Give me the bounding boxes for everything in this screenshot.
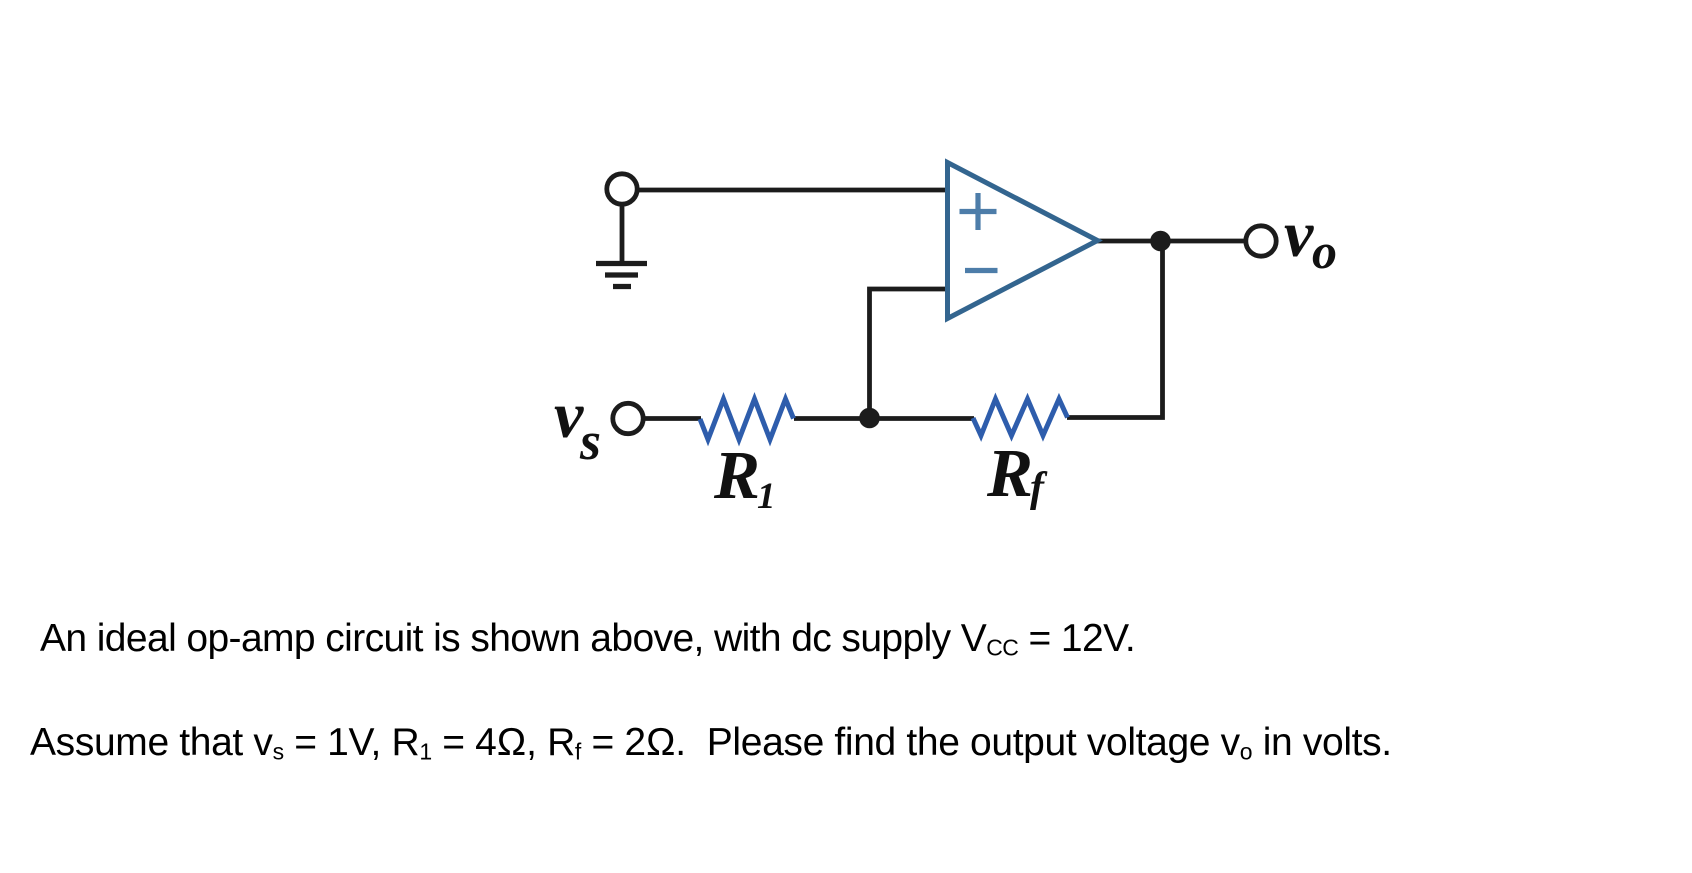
svg-text:v: v bbox=[1284, 198, 1314, 271]
svg-text:s: s bbox=[579, 411, 601, 471]
svg-text:o: o bbox=[1312, 223, 1337, 279]
svg-text:R: R bbox=[713, 437, 760, 513]
svg-text:f: f bbox=[1030, 465, 1048, 511]
svg-text:1: 1 bbox=[757, 476, 776, 517]
svg-text:R: R bbox=[986, 435, 1033, 511]
